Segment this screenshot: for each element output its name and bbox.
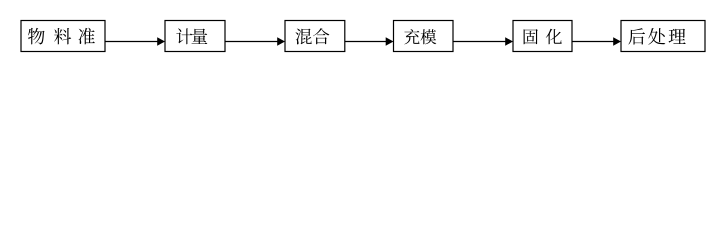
text glyph 计 <box>176 28 192 44</box>
text glyph 固 <box>524 29 538 44</box>
process box4 mold-filling 充模 <box>394 21 454 52</box>
text glyph 化 <box>546 29 562 45</box>
text glyph 后 <box>628 28 645 44</box>
flow arrow 1: box1 to box2 <box>105 37 165 45</box>
process box5 curing 固化 <box>513 21 572 52</box>
text glyph 准 <box>79 28 95 45</box>
text glyph 混 <box>296 29 312 45</box>
flow arrow 2: box2 to box3 <box>225 37 285 45</box>
process box1 material-preparation 物 料 准 <box>21 21 105 52</box>
text glyph 物 <box>28 28 45 45</box>
process box2 metering 计量 <box>165 21 225 52</box>
process box3 mixing 混合 <box>285 21 345 52</box>
text glyph 处 <box>648 28 665 45</box>
text glyph 料 <box>54 28 71 44</box>
flow arrow 4: box4 to box5 <box>453 37 513 45</box>
flow arrow 3: box3 to box4 <box>345 37 394 45</box>
process box6 post-processing 后处理 <box>621 21 705 52</box>
text glyph 量 <box>192 29 208 44</box>
text glyph 合 <box>313 28 329 44</box>
flow arrow 5: box5 to box6 <box>572 37 621 45</box>
text glyph 模 <box>421 29 437 44</box>
text glyph 理 <box>669 29 686 44</box>
text glyph 充 <box>404 29 419 44</box>
